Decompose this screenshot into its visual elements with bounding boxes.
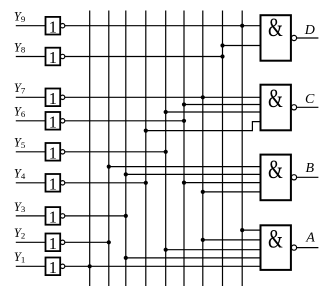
wire vertical bus line for Y3 complement bbox=[125, 11, 127, 287]
inverter G8 (NOT gate for Y8) bbox=[46, 48, 65, 67]
svg-text:1: 1 bbox=[49, 113, 57, 132]
wire input Y7 bbox=[16, 96, 46, 98]
svg-text:1: 1 bbox=[49, 208, 57, 227]
wire input Y6 bbox=[16, 120, 46, 122]
svg-text:C: C bbox=[305, 92, 315, 107]
svg-text:A: A bbox=[305, 230, 315, 245]
junction Y3 bus tap at gate B branch bbox=[124, 172, 128, 176]
wire Y8 inverter output row bbox=[65, 56, 223, 58]
svg-text:&: & bbox=[268, 225, 283, 254]
svg-text:1: 1 bbox=[49, 144, 57, 163]
wire vertical bus line for Y1 complement bbox=[89, 11, 91, 287]
junction Y6 bus tap at gate C branch bbox=[182, 102, 186, 106]
wire branch Y5 complement to gate C bbox=[166, 111, 261, 113]
wire Y6 inverter output row bbox=[65, 120, 184, 122]
wire input Y8 bbox=[16, 56, 46, 58]
junction Y1 row to bus bbox=[88, 264, 92, 268]
inverter G4 (NOT gate for Y4) bbox=[46, 174, 65, 194]
inverter G2 (NOT gate for Y2) bbox=[46, 234, 65, 254]
wire branch Y7 complement to gate B bbox=[203, 191, 261, 193]
junction Y7 row to bus bbox=[201, 95, 205, 99]
svg-text:1: 1 bbox=[49, 48, 57, 67]
inverter G3 (NOT gate for Y3) bbox=[46, 207, 65, 227]
wire branch Y9 complement to gate A bbox=[242, 229, 260, 231]
inverter G6 (NOT gate for Y6) bbox=[46, 112, 65, 132]
svg-text:1: 1 bbox=[49, 17, 57, 36]
wire vertical bus line for Y4 complement bbox=[145, 11, 147, 287]
wire branch Y7 complement to gate A bbox=[203, 239, 261, 241]
junction Y8 bus tap at gate D branch bbox=[220, 43, 224, 47]
wire vertical bus line for Y7 complement bbox=[202, 11, 204, 287]
wire Y2 inverter output row bbox=[65, 241, 109, 243]
wire vertical bus line for Y5 complement bbox=[165, 11, 167, 287]
wire vertical bus line for Y8 complement bbox=[222, 11, 224, 287]
svg-text:1: 1 bbox=[49, 234, 57, 253]
wire input Y5 bbox=[16, 151, 46, 153]
inverter G5 (NOT gate for Y5) bbox=[46, 143, 65, 163]
wire vertical bus line for Y9 complement bbox=[241, 11, 243, 287]
wire Y5 inverter output row bbox=[65, 151, 166, 153]
wire branch Y4 complement to gate C (jogged) bbox=[146, 122, 261, 131]
junction Y4 row to bus bbox=[144, 181, 148, 185]
junction Y6 row to bus bbox=[182, 119, 186, 123]
wire input Y2 bbox=[16, 241, 46, 243]
wire Y4 inverter output row bbox=[65, 182, 146, 184]
svg-text:&: & bbox=[268, 84, 283, 113]
junction Y9 bus tap at gate A branch bbox=[240, 228, 244, 232]
NAND gate A bbox=[261, 225, 297, 270]
wire output A bbox=[297, 247, 319, 249]
svg-text:B: B bbox=[306, 161, 315, 176]
svg-text:&: & bbox=[268, 155, 283, 184]
wire branch Y6 complement to gate C bbox=[184, 104, 261, 106]
svg-text:&: & bbox=[268, 13, 283, 42]
wire vertical bus line for Y2 complement bbox=[108, 11, 110, 287]
junction Y5 row to bus bbox=[164, 150, 168, 154]
wire branch Y3 complement to gate A bbox=[126, 257, 261, 259]
junction Y2 row to bus bbox=[107, 240, 111, 244]
NAND gate B bbox=[261, 155, 297, 201]
wire input Y4 bbox=[16, 182, 46, 184]
junction Y2 bus tap at gate B branch bbox=[107, 165, 111, 169]
wire branch Y2 complement to gate B bbox=[109, 166, 261, 168]
junction Y5 bus tap at gate A branch bbox=[164, 248, 168, 252]
wire Y7 inverter output row bbox=[65, 96, 261, 98]
inverter G9 (NOT gate for Y9) bbox=[46, 17, 65, 37]
wire input Y9 bbox=[16, 25, 46, 27]
wire output D bbox=[297, 37, 319, 39]
inverter G1 (NOT gate for Y1) bbox=[46, 258, 65, 278]
inverter G7 (NOT gate for Y7) bbox=[46, 89, 65, 109]
wire Y9 inverter output row bbox=[65, 25, 261, 27]
wire input Y1 bbox=[16, 265, 46, 267]
wire Y1 inverter output row bbox=[65, 265, 261, 267]
junction Y4 bus tap at gate C branch bbox=[144, 129, 148, 133]
junction Y3 row to bus bbox=[124, 214, 128, 218]
wire output C bbox=[297, 106, 319, 108]
wire branch Y8 complement to gate D bbox=[223, 45, 261, 47]
wire output B bbox=[297, 176, 319, 178]
svg-text:1: 1 bbox=[49, 175, 57, 194]
wire vertical bus line for Y6 complement bbox=[183, 11, 185, 287]
wire branch Y6 complement to gate B bbox=[184, 182, 261, 184]
svg-text:D: D bbox=[304, 23, 315, 38]
junction Y7 bus tap at gate A branch bbox=[201, 238, 205, 242]
junction Y6 bus tap at gate B branch bbox=[182, 181, 186, 185]
NAND gate C bbox=[261, 84, 297, 130]
wire Y3 inverter output row bbox=[65, 215, 126, 217]
wire branch Y3 complement to gate B bbox=[126, 173, 261, 175]
NAND gate D bbox=[261, 13, 297, 61]
junction Y7 bus tap at gate B branch bbox=[201, 190, 205, 194]
junction Y3 bus tap at gate A branch bbox=[124, 256, 128, 260]
wire branch Y5 complement to gate A bbox=[166, 249, 261, 251]
junction Y9 row to bus bbox=[240, 24, 244, 28]
junction Y5 bus tap at gate C branch bbox=[164, 110, 168, 114]
svg-text:1: 1 bbox=[49, 258, 57, 277]
junction Y8 row to bus bbox=[220, 54, 224, 58]
svg-text:1: 1 bbox=[49, 89, 57, 108]
wire input Y3 bbox=[16, 215, 46, 217]
